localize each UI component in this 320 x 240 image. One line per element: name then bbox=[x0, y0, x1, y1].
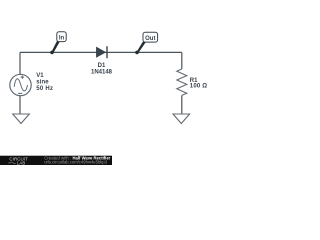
ground (right) bbox=[173, 114, 190, 124]
V1 plus sign bbox=[21, 75, 24, 78]
svg-text:V1: V1 bbox=[36, 73, 44, 79]
node Out flag tail bbox=[136, 42, 146, 54]
node In junction dot bbox=[50, 51, 54, 55]
watermark bar bbox=[0, 156, 112, 165]
watermark logo wave bbox=[8, 162, 15, 164]
svg-text:sine: sine bbox=[36, 79, 49, 85]
diode D1 triangle (anode) bbox=[96, 47, 105, 57]
diode D1 cathode bar bbox=[106, 46, 108, 58]
wire resistor bottom to ground bbox=[181, 95, 183, 114]
wire left vertical V1 top bbox=[19, 52, 21, 75]
svg-text:1N4148: 1N4148 bbox=[91, 70, 113, 76]
node In flag tail bbox=[51, 41, 60, 53]
wire top horizontal from V1 to R1 bbox=[20, 51, 182, 53]
V1 sine wave bbox=[14, 79, 27, 91]
resistor R1 zigzag bbox=[177, 69, 187, 95]
node In flag box bbox=[57, 32, 66, 42]
svg-text:Out: Out bbox=[145, 36, 155, 42]
svg-text:50 Hz: 50 Hz bbox=[36, 86, 53, 92]
wire V1 bottom to ground bbox=[19, 96, 21, 114]
node Out junction dot bbox=[135, 51, 139, 55]
svg-text:LAB: LAB bbox=[17, 160, 26, 165]
svg-text:urls.circuitlab.com/c49hw4e5bk: urls.circuitlab.com/c49hw4e5bkp3 bbox=[44, 160, 108, 165]
V1 minus sign bbox=[18, 92, 22, 94]
wire right vertical to resistor bbox=[181, 52, 183, 69]
ground (left) bbox=[13, 114, 30, 124]
node Out flag box bbox=[143, 32, 158, 42]
svg-text:D1: D1 bbox=[98, 63, 106, 69]
svg-text:100 Ω: 100 Ω bbox=[190, 83, 208, 89]
svg-text:In: In bbox=[59, 35, 65, 41]
voltage source V1 circle bbox=[10, 74, 31, 95]
